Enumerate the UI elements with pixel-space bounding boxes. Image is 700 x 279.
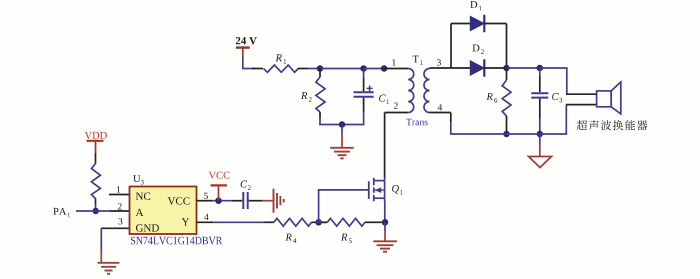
resistor R2	[301, 69, 325, 126]
node T1 pin1 dot	[381, 65, 388, 72]
node R4/R5 junction	[315, 219, 322, 226]
wire gate riser	[319, 190, 369, 222]
node C3 top junction	[537, 65, 544, 72]
primary winding	[408, 69, 414, 113]
node PA1 junction	[92, 208, 99, 215]
wire C3 top to speaker corner	[540, 68, 567, 94]
wire junction to C1 top	[320, 68, 364, 70]
node VCC junction	[215, 197, 222, 204]
power port VCC	[209, 172, 230, 201]
ground (below Q1)	[373, 222, 397, 251]
node C1 top junction	[360, 65, 367, 72]
capacitor C1	[354, 69, 390, 126]
secondary winding	[424, 69, 430, 113]
wire 24V to R1	[242, 68, 254, 70]
resistor (VDD pull-up)	[91, 153, 100, 211]
transformer T1	[392, 56, 442, 126]
resistor R4	[265, 218, 316, 243]
wire to C3 top	[507, 67, 540, 69]
wire R1 to junction	[308, 68, 320, 70]
speaker (ultrasonic transducer)	[597, 82, 621, 114]
wire pin4 to R4	[197, 221, 265, 223]
capacitor C2	[232, 181, 262, 210]
wire speaker upper terminal	[566, 93, 597, 95]
wire pin3 to ground	[101, 228, 129, 262]
node C3 bottom junction	[537, 131, 544, 138]
ground (triangle, below C3)	[529, 134, 552, 168]
wire pin1 stub	[384, 68, 408, 70]
power port VDD	[85, 132, 107, 153]
wire diode branch right vertical	[506, 24, 508, 69]
power port 24V	[236, 37, 257, 69]
label 超声波换能器 (ultrasonic transducer, glyph outlines)	[577, 120, 648, 130]
ground (mid rail)	[330, 125, 354, 159]
node diode output junction	[503, 65, 510, 72]
resistor R1	[252, 54, 308, 72]
node MOSFET source junction	[382, 219, 389, 226]
wire pin1 stub	[109, 194, 130, 196]
transistor Q1 (N-MOSFET)	[369, 178, 403, 223]
wire T1 pin4 to bottom rail	[430, 113, 451, 135]
wire T1 pin3 to diodes	[430, 67, 471, 69]
wire mid rail R2-C1 bottom	[319, 124, 364, 126]
wire speaker lower terminal	[566, 104, 597, 106]
IC U3 inverter SN74LVC1G14DBVR	[117, 175, 223, 244]
resistor R5	[315, 218, 385, 243]
ground (below IC)	[98, 263, 120, 274]
ground (sideways, after C2)	[262, 189, 284, 213]
capacitor C3	[531, 68, 562, 134]
wire pin5 to C2	[197, 200, 233, 202]
wire bottom rail	[450, 105, 566, 134]
resistor R6	[486, 68, 511, 134]
node R2 top junction	[317, 65, 324, 72]
wire C1 to T1 pin1	[364, 68, 385, 70]
node mid rail junction	[339, 121, 346, 128]
diode D1	[451, 1, 507, 32]
wire diode branch left vertical	[450, 24, 452, 69]
diode D2	[470, 45, 506, 77]
wire PA1 to pin2	[76, 210, 130, 212]
node R6 bottom junction	[503, 131, 510, 138]
wire T1 pin2 to drain	[385, 113, 409, 178]
label PA1	[53, 208, 66, 215]
